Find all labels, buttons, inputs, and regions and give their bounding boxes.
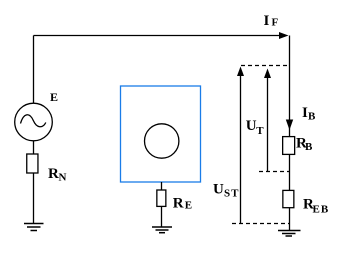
source E circle (15, 103, 53, 141)
svg-text:E: E (185, 200, 192, 212)
svg-text:T: T (256, 125, 264, 137)
resistor R_N (27, 154, 38, 173)
arrowhead I_F (279, 32, 289, 39)
wire left vertical (33, 36, 35, 104)
wire to ground right (289, 208, 291, 231)
circle inside box (145, 124, 179, 158)
wire to ground middle (161, 207, 163, 227)
resistor R_B (283, 137, 295, 155)
svg-text:E: E (50, 90, 58, 104)
ground left (24, 223, 44, 225)
dashed line top (U level) (241, 65, 289, 67)
svg-text:B: B (308, 111, 316, 123)
block box (blue) (121, 86, 201, 182)
wire box to R_E (161, 182, 163, 190)
resistor R_E (157, 190, 166, 206)
ground middle (152, 226, 172, 228)
arrowhead I_B (286, 120, 293, 131)
svg-text:R: R (48, 166, 59, 182)
dashed line bottom U_T (259, 171, 289, 173)
arrowhead U_T (264, 69, 271, 79)
wire right vertical (289, 36, 291, 137)
sine wave (21, 115, 46, 127)
ground right (278, 230, 301, 232)
svg-text:R: R (173, 196, 184, 212)
svg-text:ST: ST (224, 187, 239, 199)
svg-text:F: F (272, 17, 279, 29)
svg-text:U: U (246, 118, 257, 134)
wire to ground left (33, 174, 35, 224)
svg-text:U: U (213, 181, 224, 197)
dashed line bottom U_ST (232, 223, 289, 225)
wire below source (33, 141, 35, 154)
svg-text:N: N (59, 172, 67, 184)
wire between R_B and R_EB (289, 155, 291, 190)
resistor R_EB (283, 190, 294, 207)
arrowhead U_ST (237, 67, 244, 77)
svg-text:EB: EB (313, 204, 330, 216)
arrow U_ST stem (240, 72, 242, 223)
svg-text:B: B (305, 141, 313, 153)
arrow U_T stem (267, 74, 269, 172)
wire top horizontal (34, 35, 282, 37)
svg-text:I: I (264, 13, 270, 29)
